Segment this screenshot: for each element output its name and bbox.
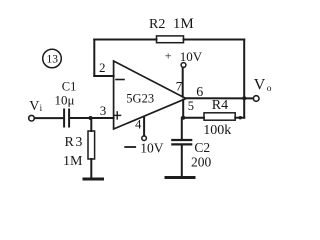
resistor R4 — [204, 113, 235, 120]
svg-text:V: V — [254, 77, 266, 94]
svg-text:R4: R4 — [212, 98, 228, 113]
svg-text:10V: 10V — [180, 49, 203, 64]
wire R3 to ground — [90, 159, 92, 178]
feedback wire top left segment — [94, 39, 156, 41]
wire output pin 6 — [186, 97, 253, 99]
junction node pin5/R4/C2 — [181, 116, 185, 120]
svg-text:o: o — [267, 84, 272, 94]
wire C1 to op-amp pin 3 — [70, 117, 113, 119]
wire C2 to ground — [181, 146, 183, 177]
negative supply terminal -10V — [142, 136, 147, 141]
capacitor C1 — [64, 110, 69, 127]
svg-text:3: 3 — [100, 103, 107, 118]
positive supply terminal +10V — [181, 63, 186, 68]
wire node to R4 — [183, 117, 204, 119]
svg-text:C1: C1 — [62, 80, 77, 94]
ground C2 — [166, 176, 194, 179]
svg-text:10μ: 10μ — [55, 93, 75, 108]
svg-text:5: 5 — [188, 99, 194, 113]
input terminal Vi — [29, 115, 35, 121]
figure number circle 13 — [43, 49, 62, 68]
resistor R2 — [157, 36, 184, 43]
ground R3 — [84, 178, 103, 181]
minus sign of -10V — [125, 146, 135, 148]
svg-text:R2: R2 — [149, 17, 165, 32]
resistor R3 — [88, 131, 95, 159]
svg-text:2: 2 — [99, 60, 106, 75]
op-amp U1 5G23 — [114, 61, 186, 129]
wire pin 4 — [143, 117, 145, 136]
wire node to C2 — [181, 118, 183, 139]
non-inverting input plus mark — [114, 112, 121, 119]
svg-text:7: 7 — [176, 79, 183, 94]
wire pin 5 — [182, 100, 184, 118]
capacitor C2 — [172, 140, 191, 144]
svg-text:6: 6 — [196, 85, 203, 100]
feedback wire left vertical — [93, 40, 95, 77]
svg-text:10V: 10V — [140, 141, 164, 156]
svg-text:13: 13 — [47, 54, 59, 66]
svg-text:V: V — [29, 99, 39, 114]
inverting input minus mark — [116, 79, 124, 81]
wire R4 right — [235, 117, 244, 119]
junction node input/R3 — [89, 116, 93, 120]
junction node output — [242, 96, 246, 100]
svg-text:4: 4 — [135, 118, 142, 132]
svg-text:5G23: 5G23 — [126, 91, 154, 105]
wire input terminal to C1 — [35, 117, 63, 119]
svg-text:1M: 1M — [63, 154, 83, 169]
wire node to R3 — [90, 118, 92, 131]
svg-text:1M: 1M — [173, 16, 194, 32]
wire pin 2 — [94, 75, 113, 77]
feedback wire right vertical — [243, 40, 245, 99]
junction blob R4 right — [239, 116, 242, 119]
svg-text:+: + — [165, 49, 172, 63]
output terminal Vo — [253, 96, 259, 102]
svg-text:100k: 100k — [203, 123, 231, 138]
wire pin 7 — [182, 68, 184, 97]
svg-text:R3: R3 — [65, 135, 84, 150]
svg-text:200: 200 — [191, 154, 212, 169]
wire riser R4 to output — [243, 98, 245, 117]
feedback wire top right segment — [184, 39, 245, 41]
svg-text:C2: C2 — [194, 140, 210, 155]
